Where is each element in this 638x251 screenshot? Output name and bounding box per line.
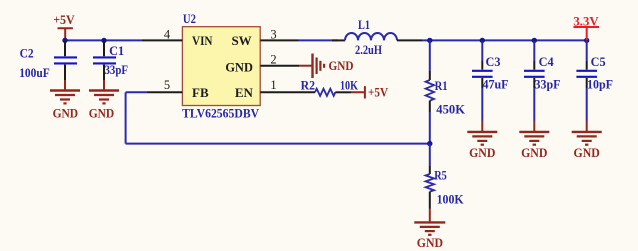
capacitor C5 xyxy=(576,41,597,121)
capacitor C4 designator xyxy=(539,54,554,69)
U2 designator xyxy=(183,11,196,26)
resistor R1 value 450K xyxy=(436,101,466,116)
svg-text:FB: FB xyxy=(192,85,209,100)
svg-text:L1: L1 xyxy=(358,17,370,32)
resistor R5 value 100K xyxy=(437,191,465,206)
U2 pin name EN xyxy=(235,85,254,100)
svg-text:450K: 450K xyxy=(436,101,466,116)
ground label GND (pin2) xyxy=(329,58,354,73)
node junction at C3 xyxy=(480,38,485,43)
svg-text:VIN: VIN xyxy=(192,33,213,48)
resistor R1 xyxy=(426,40,434,143)
svg-text:C4: C4 xyxy=(539,54,554,69)
capacitor C1 xyxy=(93,41,116,80)
svg-text:33pF: 33pF xyxy=(105,62,129,77)
pin number 4 xyxy=(164,27,171,41)
capacitor C2 value 100uF xyxy=(19,65,50,80)
svg-text:2: 2 xyxy=(270,52,276,66)
svg-text:47uF: 47uF xyxy=(483,77,509,92)
ground below C5 xyxy=(572,121,602,145)
pin number 2 xyxy=(270,52,276,66)
ground label GND (C3) xyxy=(469,145,495,160)
wire R2 to +5V xyxy=(335,91,351,93)
svg-text:C1: C1 xyxy=(109,43,124,58)
inductor L1 value 2.2uH xyxy=(355,42,382,57)
resistor R2 designator xyxy=(301,78,315,93)
inductor L1 xyxy=(332,33,422,40)
wire FB net: horizontal to divider xyxy=(126,143,430,145)
IC U2 TLV62565DBV body xyxy=(182,27,260,106)
pin number 5 xyxy=(164,78,170,92)
svg-text:4: 4 xyxy=(164,27,171,41)
svg-text:10K: 10K xyxy=(340,78,359,93)
ground below C1 xyxy=(89,80,119,103)
capacitor C2 designator xyxy=(20,46,34,61)
resistor R5 xyxy=(426,144,434,209)
ground label GND (R5) xyxy=(417,235,443,250)
svg-text:R5: R5 xyxy=(434,168,447,183)
power +5V (left) xyxy=(58,28,73,40)
U2 pin 3 (SW) xyxy=(260,39,298,41)
svg-text:SW: SW xyxy=(231,33,251,48)
capacitor C1 value 33pF xyxy=(105,62,129,77)
svg-text:U2: U2 xyxy=(183,11,196,26)
svg-text:GND: GND xyxy=(53,105,79,120)
capacitor C3 designator xyxy=(486,54,501,69)
node junction at 3.3V xyxy=(584,38,589,43)
U2 pin 1 (EN) xyxy=(260,91,315,93)
node junction at R1 xyxy=(427,38,432,43)
power +5V label (EN) xyxy=(368,84,389,99)
U2 pin 2 (GND) xyxy=(260,65,299,67)
node junction at C4 xyxy=(532,38,537,43)
capacitor C5 designator xyxy=(591,54,606,69)
capacitor C2 xyxy=(54,41,77,80)
power 3.3V xyxy=(574,27,600,40)
resistor R2 xyxy=(315,89,335,96)
resistor R1 designator xyxy=(435,78,448,93)
svg-text:100uF: 100uF xyxy=(19,65,50,80)
ground label GND (C2) xyxy=(53,105,79,120)
wire +5V rail to U2 xyxy=(65,39,142,41)
svg-text:GND: GND xyxy=(469,145,495,160)
wire L1 to output rail xyxy=(422,39,587,41)
capacitor C4 xyxy=(524,41,545,121)
U2 pin name FB xyxy=(192,85,209,100)
svg-text:GND: GND xyxy=(574,145,600,160)
svg-text:GND: GND xyxy=(521,145,547,160)
wire FB net: vertical xyxy=(125,92,127,143)
capacitor C3 value 47uF xyxy=(483,77,509,92)
resistor R5 designator xyxy=(434,168,447,183)
svg-text:C3: C3 xyxy=(486,54,501,69)
svg-text:1: 1 xyxy=(270,78,276,92)
capacitor C5 value 10pF xyxy=(587,77,613,92)
resistor R2 value 10K xyxy=(340,78,359,93)
power +5V label xyxy=(53,12,75,27)
capacitor C3 xyxy=(472,41,493,121)
pin number 3 xyxy=(270,27,276,41)
svg-text:100K: 100K xyxy=(437,191,465,206)
svg-text:+5V: +5V xyxy=(368,84,389,99)
svg-text:C5: C5 xyxy=(591,54,606,69)
ground below R5 xyxy=(414,209,445,235)
U2 pin name GND xyxy=(225,60,253,75)
svg-text:GND: GND xyxy=(417,235,443,250)
svg-text:2.2uH: 2.2uH xyxy=(355,42,382,57)
ground below C4 xyxy=(519,121,549,145)
U2 part name TLV62565DBV xyxy=(182,106,260,121)
U2 pin 4 (VIN) xyxy=(142,39,182,41)
svg-text:R1: R1 xyxy=(435,78,448,93)
power +5V (EN pullup) xyxy=(351,86,365,98)
inductor L1 designator xyxy=(358,17,370,32)
wire SW to L1 xyxy=(299,39,339,41)
U2 pin name SW xyxy=(231,33,251,48)
node junction FB divider xyxy=(427,141,432,146)
svg-text:GND: GND xyxy=(89,105,115,120)
wire FB net: pin5 stub xyxy=(126,91,147,93)
U2 pin 5 (FB) xyxy=(147,91,182,93)
svg-text:10pF: 10pF xyxy=(587,77,613,92)
svg-text:33pF: 33pF xyxy=(535,77,561,92)
power 3.3V label xyxy=(573,14,599,29)
svg-text:TLV62565DBV: TLV62565DBV xyxy=(182,106,260,121)
svg-text:GND: GND xyxy=(329,58,354,73)
pin number 1 xyxy=(270,78,276,92)
U2 pin name VIN xyxy=(192,33,213,48)
capacitor C1 designator xyxy=(109,43,124,58)
svg-text:EN: EN xyxy=(235,85,254,100)
ground label GND (C1) xyxy=(89,105,115,120)
svg-text:5: 5 xyxy=(164,78,170,92)
svg-text:+5V: +5V xyxy=(53,12,75,27)
ground label GND (C5) xyxy=(574,145,600,160)
ground label GND (C4) xyxy=(521,145,547,160)
ground below C3 xyxy=(467,121,497,145)
capacitor C4 value 33pF xyxy=(535,77,561,92)
svg-text:3: 3 xyxy=(270,27,276,41)
node junction at C2 xyxy=(62,38,67,43)
ground below C2 xyxy=(50,80,80,103)
ground (pin 2, rotated) xyxy=(299,54,324,79)
svg-text:R2: R2 xyxy=(301,78,315,93)
svg-text:GND: GND xyxy=(225,60,253,75)
node junction at C1 xyxy=(101,38,106,43)
svg-text:C2: C2 xyxy=(20,46,34,61)
svg-text:3.3V: 3.3V xyxy=(573,14,599,29)
